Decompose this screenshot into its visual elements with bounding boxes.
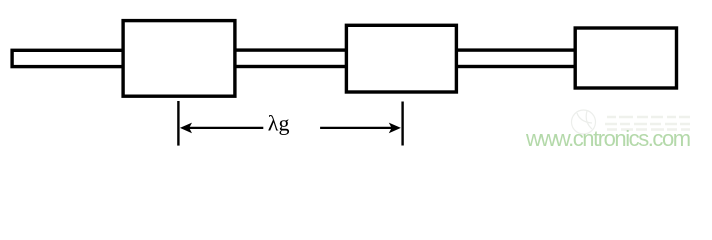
dimension arrow right head	[389, 123, 401, 134]
low-impedance section 3	[575, 28, 676, 88]
svg-text:www.cntronics.com: www.cntronics.com	[525, 126, 690, 151]
wire: input microstrip line	[12, 50, 137, 66]
dimension arrow left head	[180, 123, 192, 134]
svg-text:λg: λg	[268, 110, 290, 135]
wire: line between section 2 and section 3	[452, 50, 580, 66]
dimension tick left	[177, 101, 179, 146]
dimension arrow left shaft	[189, 127, 263, 129]
watermark logo circle	[572, 110, 596, 134]
low-impedance section 2	[346, 25, 456, 92]
watermark hanzi text row 1	[605, 117, 690, 130]
dimension tick right	[401, 102, 403, 146]
wire: line between section 1 and section 2	[232, 50, 352, 66]
dimension arrow right shaft	[320, 127, 392, 129]
low-impedance section 1	[123, 21, 235, 97]
